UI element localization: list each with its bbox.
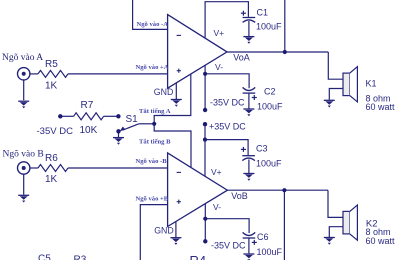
svg-text:V-: V-	[215, 62, 223, 72]
svg-text:Tắt tiếng A: Tắt tiếng A	[139, 108, 171, 115]
svg-text:10K: 10K	[80, 125, 98, 136]
svg-text:Ngõ vào B: Ngõ vào B	[3, 150, 44, 160]
svg-text:Tắt tiếng B: Tắt tiếng B	[139, 139, 171, 146]
svg-text:-35V DC: -35V DC	[37, 126, 74, 137]
svg-text:R3: R3	[74, 255, 87, 260]
svg-text:C1: C1	[257, 8, 269, 18]
svg-text:C2: C2	[264, 87, 276, 97]
svg-text:Ngõ vào A: Ngõ vào A	[2, 53, 43, 63]
svg-text:-35V DC: -35V DC	[211, 240, 246, 250]
svg-text:C3: C3	[256, 144, 268, 154]
svg-text:GND: GND	[154, 226, 174, 236]
svg-text:C6: C6	[257, 232, 269, 242]
svg-text:V-: V-	[213, 202, 221, 212]
svg-text:100uF: 100uF	[256, 22, 282, 32]
svg-text:100uF: 100uF	[257, 102, 283, 112]
svg-text:Ngõ vào +B: Ngõ vào +B	[136, 195, 169, 202]
svg-text:V+: V+	[214, 28, 225, 38]
svg-text:VoA: VoA	[233, 53, 250, 63]
svg-text:R5: R5	[45, 59, 58, 70]
svg-text:60 watt: 60 watt	[366, 236, 395, 246]
svg-text:100uF: 100uF	[256, 159, 282, 169]
svg-text:R4: R4	[190, 253, 207, 260]
svg-text:VoB: VoB	[231, 191, 248, 201]
svg-text:Ngõ vào -B: Ngõ vào -B	[136, 158, 168, 165]
svg-text:+35V DC: +35V DC	[209, 122, 246, 132]
svg-text:100uF: 100uF	[257, 247, 283, 257]
svg-text:V+: V+	[211, 167, 222, 177]
svg-text:1K: 1K	[45, 174, 58, 185]
svg-text:1K: 1K	[45, 81, 58, 92]
svg-text:Ngõ vào -A: Ngõ vào -A	[137, 21, 169, 28]
svg-text:R6: R6	[45, 153, 58, 164]
svg-text:K1: K1	[366, 78, 377, 88]
svg-text:Ngõ vào +A: Ngõ vào +A	[136, 64, 169, 71]
svg-text:C5: C5	[38, 254, 51, 260]
svg-text:R7: R7	[81, 100, 94, 111]
svg-text:60 watt: 60 watt	[366, 102, 395, 112]
svg-text:S1: S1	[126, 114, 139, 125]
svg-text:GND: GND	[154, 87, 174, 97]
svg-text:-35V DC: -35V DC	[210, 98, 245, 108]
